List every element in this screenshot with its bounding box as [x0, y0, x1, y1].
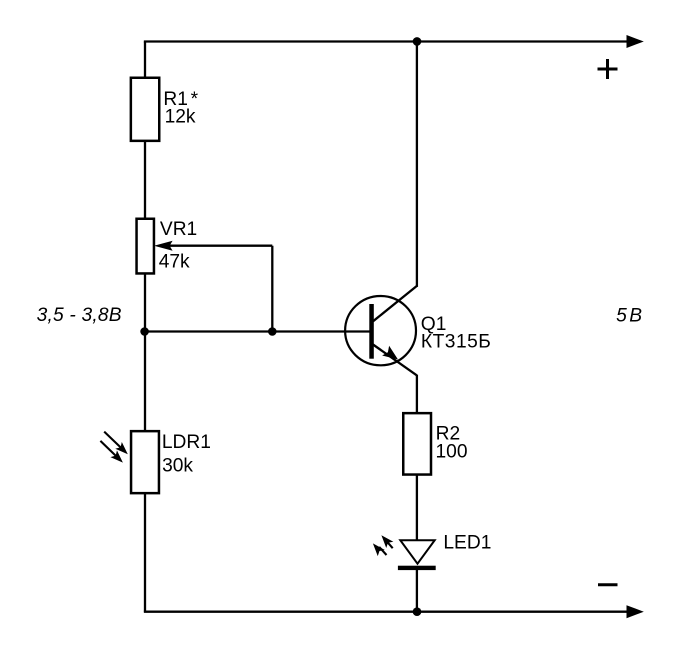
LED LED1 [398, 540, 436, 570]
node wiper junction [268, 327, 277, 336]
LDR light arrow upper [104, 432, 131, 458]
wire collector vertical [416, 42, 418, 287]
wire LED to bottom rail [416, 566, 418, 612]
svg-text:LDR1: LDR1 [162, 432, 211, 453]
LED light arrow lower [369, 540, 386, 556]
wire base node horizontal [145, 330, 371, 332]
svg-text:VR1: VR1 [160, 219, 197, 240]
wiper arrowhead [154, 241, 173, 251]
wire top rail [144, 40, 640, 42]
svg-text:3,5 - 3,8В: 3,5 - 3,8В [37, 305, 122, 326]
resistor R1 [131, 78, 159, 141]
wire emitter vertical [416, 375, 418, 414]
wire left rail upper [144, 42, 146, 79]
wire wiper horizontal [168, 245, 272, 247]
resistor R2 [403, 413, 431, 474]
node emitter-bottom [413, 607, 422, 616]
LED light arrow upper [378, 532, 393, 548]
wire VR1 to LDR [144, 273, 146, 433]
photoresistor LDR1 [131, 431, 159, 493]
wire bottom rail [144, 611, 640, 613]
svg-text:КТ315Б: КТ315Б [421, 332, 491, 353]
wire R1 to VR1 [144, 140, 146, 220]
+ supply arrow [627, 35, 644, 48]
node base-left [140, 327, 149, 336]
wire LDR to bottom rail [144, 493, 146, 612]
- supply arrow [627, 605, 644, 618]
potentiometer VR1 [137, 219, 154, 274]
+ symbol [598, 59, 618, 79]
svg-text:47k: 47k [159, 251, 190, 272]
svg-text:LED1: LED1 [443, 532, 491, 553]
svg-text:5В: 5В [616, 305, 642, 326]
svg-text:100: 100 [436, 441, 468, 462]
- symbol [598, 583, 618, 586]
wire R2 to LED [416, 474, 418, 542]
svg-text:12k: 12k [165, 106, 196, 127]
wire wiper vertical [271, 246, 273, 332]
svg-text:30k: 30k [162, 455, 193, 476]
LDR light arrow lower [100, 441, 126, 466]
transistor Q1 [345, 286, 417, 376]
node collector-top [413, 37, 422, 46]
